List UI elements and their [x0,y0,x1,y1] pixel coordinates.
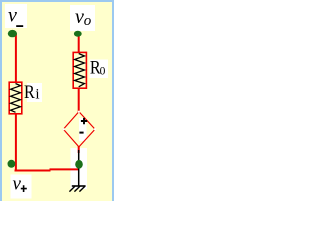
wire: bottom horizontal right segment [50,168,80,170]
vertex handle marks [78,111,80,113]
wire: right vertical lower (source to ground node) [78,146,80,153]
svg-text:v: v [75,6,84,28]
resistor Ro [73,52,86,88]
svg-text:v: v [13,173,22,194]
node label box v+ [11,175,32,199]
minus sign in source [79,132,83,134]
node v+ [7,160,15,168]
wire: right vertical middle (Ro to source) [78,88,80,112]
node label box v- [5,4,27,28]
label box inside source [79,118,87,141]
label box Ri [27,83,42,102]
wire: left vertical lower (Ri to corner) [15,113,17,172]
label box at ground [71,148,88,189]
svg-text:v: v [8,5,17,27]
svg-text:i: i [35,87,39,103]
label box Ro [90,60,109,79]
wire: left vertical upper (v- node to Ri) [15,34,17,83]
svg-text:0: 0 [100,66,106,78]
wire: right vertical upper (vo node to Ro) [78,35,80,53]
node label box vo [70,5,95,31]
node vo [74,31,82,37]
resistor Ri [9,82,22,114]
node v- [8,30,17,37]
svg-text:o: o [84,13,92,29]
wire: bottom horizontal left segment [15,170,51,172]
svg-text:R: R [24,81,35,103]
dependent source U1 (diamond) [63,112,95,147]
node at ground [75,160,83,169]
ground [69,150,85,192]
border frame (decorative) [0,0,114,2]
plus sign in source [81,118,87,124]
